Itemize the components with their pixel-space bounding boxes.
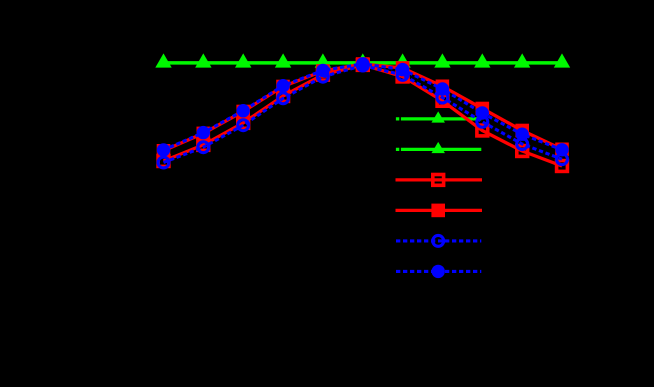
blue open-circle dashed series line [164, 66, 563, 163]
legend row 1: green dashed + triangle [396, 117, 481, 120]
legend row 4: red solid + filled square [396, 209, 483, 212]
blue filled-circle dashed series line [164, 64, 563, 150]
red filled-square series line [164, 64, 563, 151]
green reference series (two overlapped: dashed + solid) [164, 61, 563, 65]
legend row 2: green solid + triangle [396, 148, 481, 151]
legend row 6: blue dashed + filled circle [396, 270, 481, 273]
red open-square series line [164, 65, 563, 166]
legend row 3: red solid + open square [396, 178, 483, 181]
legend row 5: blue dashed + open circle [396, 239, 481, 242]
